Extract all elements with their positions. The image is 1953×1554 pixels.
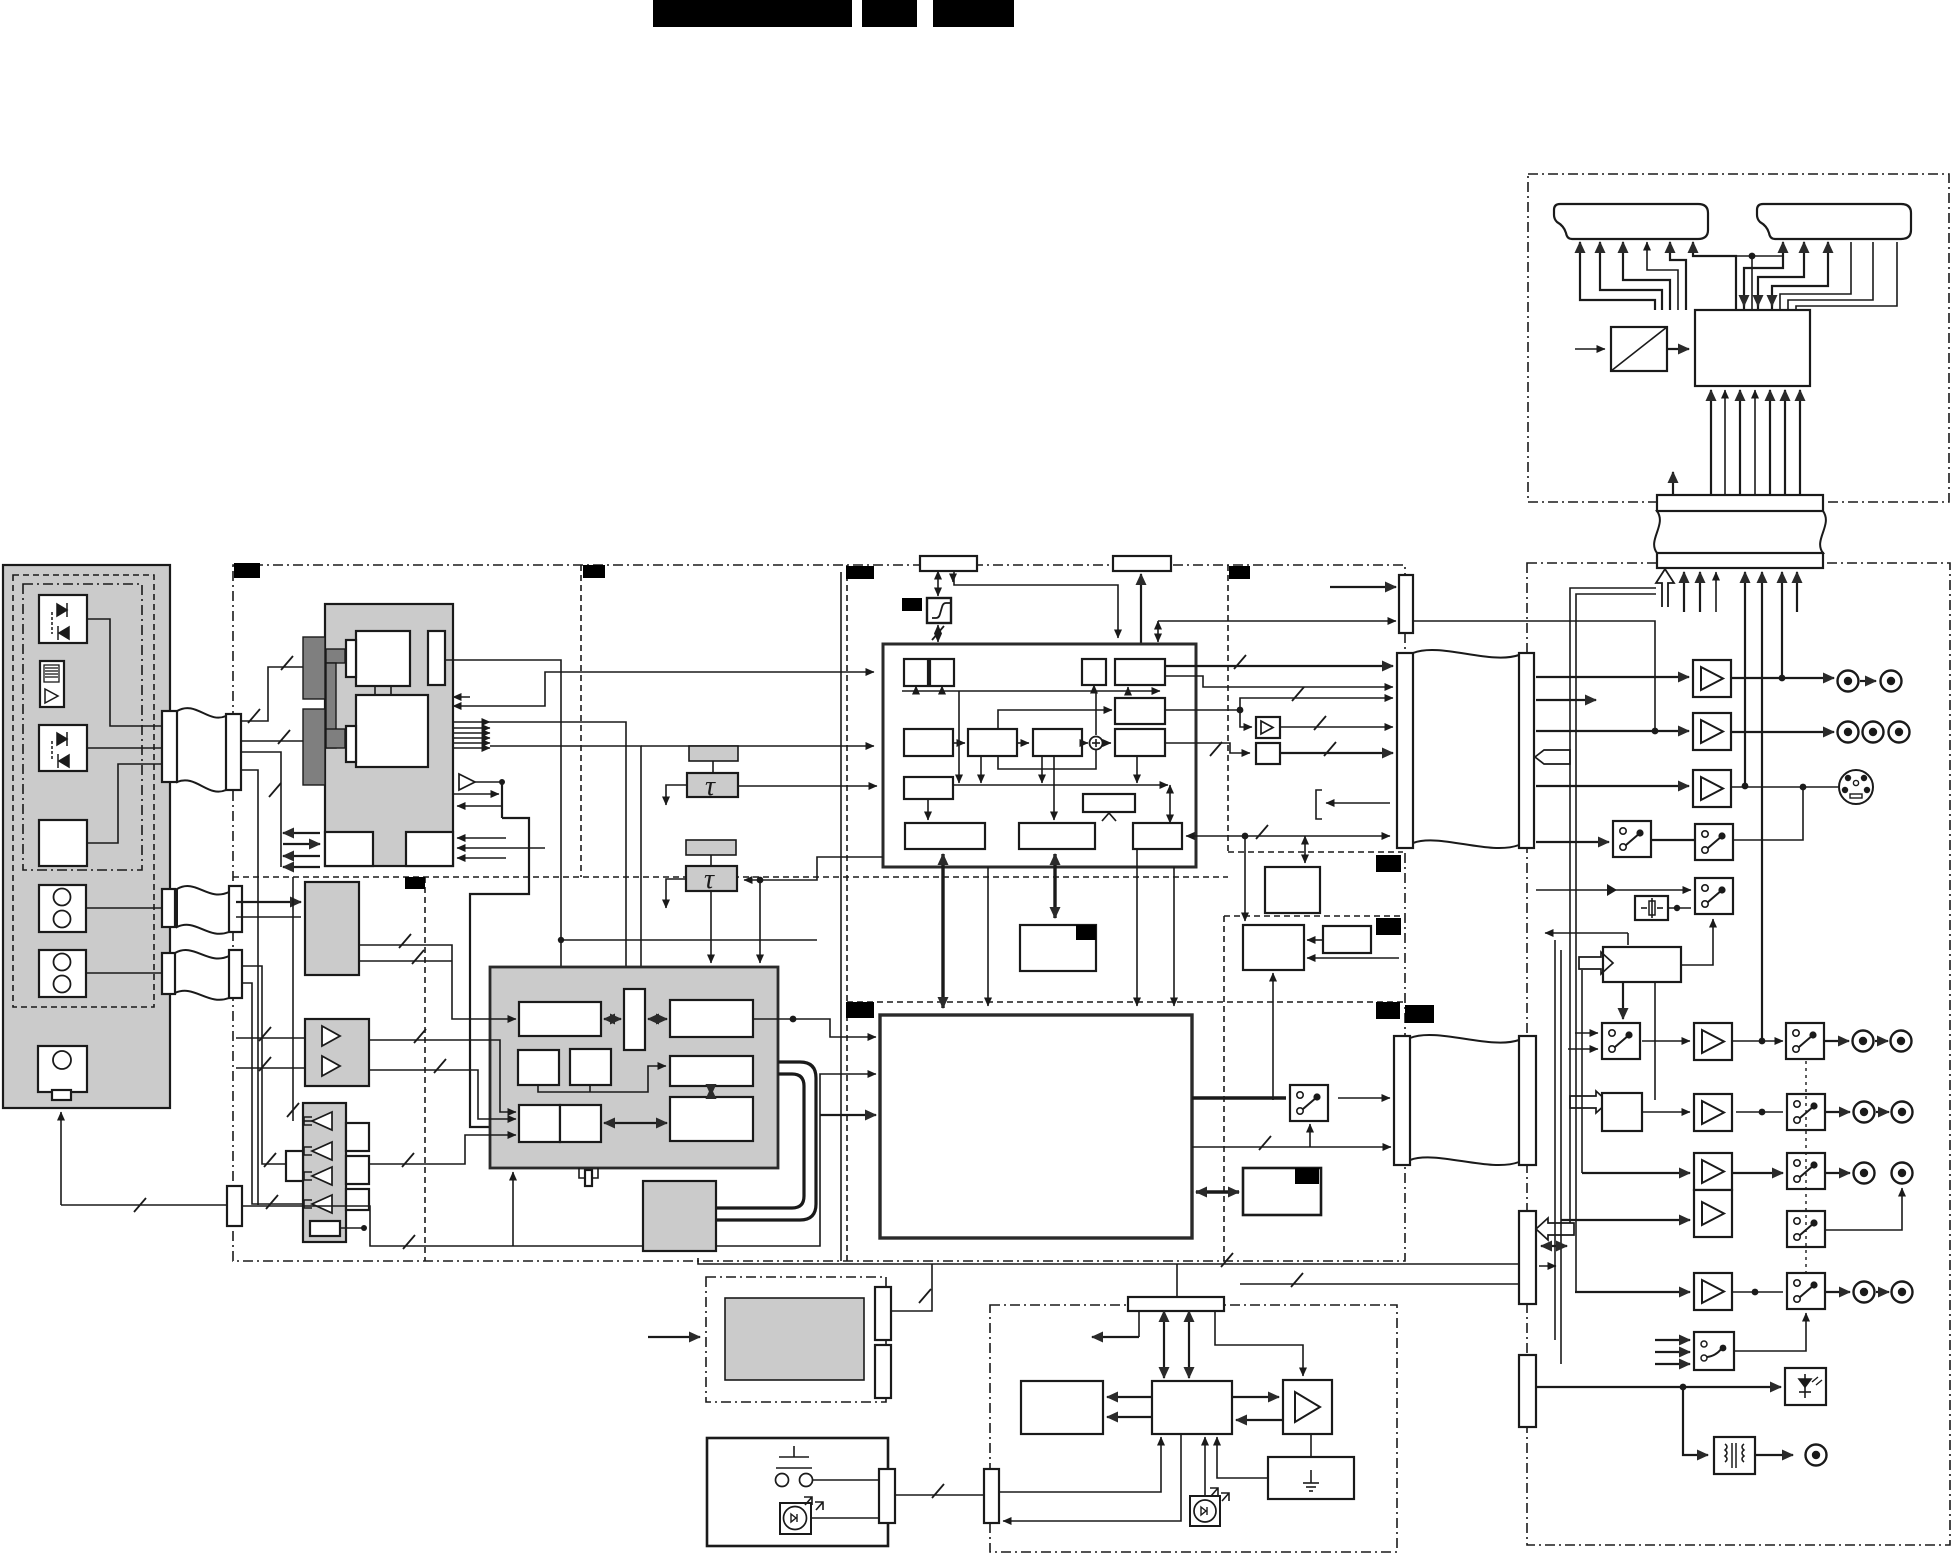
svg-text:τ: τ [704, 864, 715, 895]
svg-text:τ: τ [705, 771, 716, 802]
